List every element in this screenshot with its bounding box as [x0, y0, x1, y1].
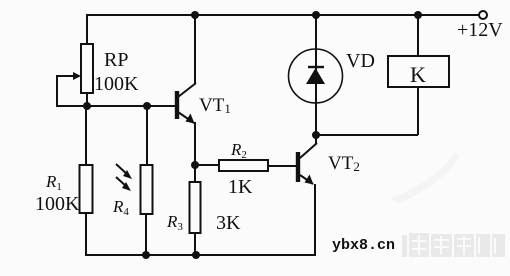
svg-text:+12V: +12V — [457, 19, 503, 41]
svg-text:100K: 100K — [94, 73, 139, 95]
svg-text:RP: RP — [104, 49, 128, 71]
svg-text:ybx8.cn: ybx8.cn — [332, 237, 395, 254]
svg-text:100K: 100K — [35, 193, 80, 215]
svg-text:3K: 3K — [216, 212, 241, 234]
svg-text:1K: 1K — [228, 176, 253, 198]
svg-text:VD: VD — [346, 50, 375, 72]
svg-text:K: K — [410, 62, 426, 87]
